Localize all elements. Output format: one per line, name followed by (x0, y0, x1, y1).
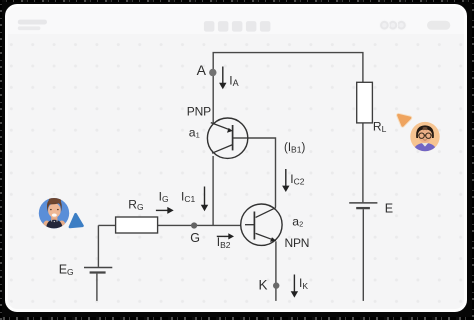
svg-text:K: K (259, 278, 268, 293)
svg-text:(IB1): (IB1) (284, 142, 305, 155)
svg-text:G: G (190, 231, 200, 245)
svg-text:E: E (385, 202, 393, 216)
svg-text:NPN: NPN (285, 236, 310, 250)
svg-text:A: A (197, 62, 207, 78)
svg-text:PNP: PNP (187, 104, 211, 118)
